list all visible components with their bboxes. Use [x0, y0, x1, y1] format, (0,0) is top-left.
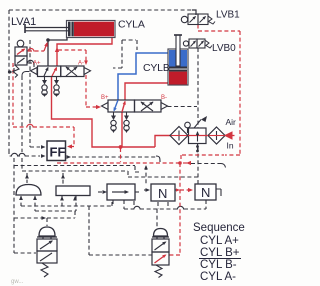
- svg-text:A+: A+: [33, 61, 41, 67]
- silencer exhaust 2 of valve A: [56, 77, 58, 82]
- svg-text:CYL B+: CYL B+: [200, 247, 240, 259]
- air source triangle: [225, 132, 232, 139]
- wire small dashed corner x135: [14, 166, 141, 173]
- wire air unit to supply loop: [155, 136, 170, 148]
- svg-text:LVB1: LVB1: [216, 10, 240, 21]
- wire red riser from supply T down to y163 bus: [120, 148, 122, 162]
- svg-text:N: N: [201, 185, 210, 200]
- wire N2 output hook: [216, 189, 221, 196]
- pressure gauge: [185, 122, 191, 128]
- svg-text:CYL A+: CYL A+: [200, 235, 239, 247]
- wire LVB1 output red dashed down right edge: [198, 25, 240, 156]
- svg-text:A-: A-: [78, 61, 84, 67]
- silencer exhaust 2 of valve B: [126, 112, 128, 116]
- valve LVB1 roller limit valve: [181, 14, 215, 25]
- svg-text:CYL B-: CYL B-: [200, 259, 237, 271]
- label Sequence list: [193, 222, 245, 283]
- CYLB rod: [176, 35, 180, 66]
- svg-text:CYLB: CYLB: [143, 62, 170, 74]
- cylinder CYLA: [67, 21, 116, 38]
- wire CYLB top port blue line to valve B: [118, 53, 168, 100]
- svg-text:Sequence: Sequence: [193, 222, 245, 234]
- flip-flop FF: [47, 141, 66, 161]
- wire valve B supply riser: [121, 112, 123, 147]
- wire red pilot chain on x86: [58, 50, 86, 62]
- gate AND rectangle: [56, 186, 90, 196]
- CYLA rod: [25, 28, 68, 31]
- svg-text:LVA1: LVA1: [11, 16, 36, 28]
- wire CYLB bottom port red line: [125, 83, 168, 100]
- wire left vertical signal line: [8, 10, 10, 150]
- valve manual (bottom middle): [152, 229, 169, 278]
- wire signal LVB0 branch above valve B: [113, 40, 122, 68]
- svg-text:gw...: gw...: [11, 279, 24, 285]
- wire red arrow into N2: [180, 189, 189, 191]
- svg-text:Air: Air: [226, 117, 237, 127]
- amplifier box with arrow: [98, 191, 103, 193]
- air filter diamond 2: [208, 127, 225, 144]
- valve manual start (bottom left): [37, 227, 57, 277]
- wire red drop to mid valve: [169, 163, 180, 255]
- gate N2 (NOT): [195, 184, 216, 200]
- wire pilot line up to valve A left pilot: [21, 76, 23, 170]
- gate OR dome: [16, 185, 41, 196]
- pilot A-: [84, 68, 91, 75]
- silencer exhaust 1 of valve A: [44, 77, 46, 82]
- wire red bus y163 from FF area to junction: [57, 162, 180, 164]
- wire air unit drain red dashes: [182, 154, 224, 156]
- wire FF output line to the right: [67, 155, 72, 159]
- wire top signal line from LVB1 across the top: [9, 9, 192, 11]
- gate N1 (NOT): [151, 184, 175, 201]
- pilot B-: [161, 103, 168, 110]
- svg-text:LVB0: LVB0: [212, 43, 236, 54]
- svg-text:CYLA: CYLA: [118, 19, 145, 31]
- valve U-A 5/2 pilot valve for CYLA: [31, 61, 91, 77]
- svg-text:FF: FF: [50, 145, 66, 160]
- svg-text:In: In: [227, 141, 234, 151]
- pilot A+: [31, 68, 38, 75]
- wire N1 top connector: [145, 166, 147, 184]
- wire LVA1 supply stub from left bus: [9, 65, 14, 72]
- wire web under dome and rectangle gates: [21, 196, 76, 211]
- wire CYLA cap-side red line to valve A: [57, 37, 112, 66]
- valve U-B 5/2 pilot valve for CYLB: [101, 95, 168, 112]
- regulator: [189, 128, 207, 144]
- wire lower FF input line: [9, 150, 40, 156]
- wire LVA1 output red pilot line down-left: [13, 63, 74, 147]
- wire LVA1 output link to pilot A+: [28, 63, 34, 67]
- svg-text:B+: B+: [101, 95, 109, 101]
- svg-text:N: N: [158, 186, 167, 201]
- svg-text:B-: B-: [161, 95, 167, 101]
- wire logic output bus y171: [22, 171, 199, 177]
- silencer exhaust 1 of valve B: [113, 112, 115, 116]
- wire signal from top line down to FF upper input: [30, 40, 40, 147]
- valve LVA1 roller limit valve: [13, 40, 27, 77]
- air filter diamond 1: [170, 127, 188, 145]
- regulator drain stub: [197, 144, 199, 151]
- wire start-valve riser (left): [14, 158, 36, 253]
- wire riser to mid valve left port: [89, 206, 152, 255]
- pilot B+: [102, 103, 109, 110]
- wire mid-valve top riser: [156, 209, 158, 227]
- wire LVA1 supply tap red dashed: [28, 50, 44, 52]
- wire CYLA rod-side line to valve A: [48, 37, 67, 66]
- valve LVB0 roller limit valve: [183, 39, 212, 48]
- wire valve B right pilot line: [168, 106, 198, 108]
- svg-text:CYL A-: CYL A-: [200, 271, 236, 283]
- wire valve A out to valve B supply loop: [52, 77, 156, 148]
- cylinder CYLB vertical: [168, 49, 188, 85]
- wire bus under N boxes: [124, 208, 206, 210]
- wire LVB0 down line to valve B right pilot and N2: [197, 48, 199, 184]
